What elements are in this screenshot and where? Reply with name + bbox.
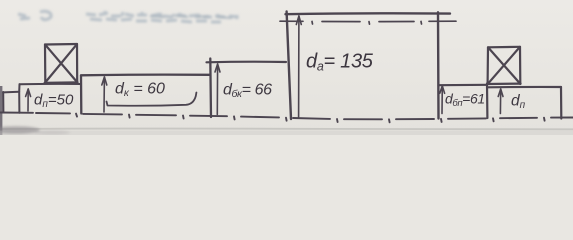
svg-text:dбк= 66: dбк= 66 [223, 82, 272, 101]
svg-text:dк = 60: dк = 60 [115, 81, 165, 100]
svg-text:da= 135: da= 135 [306, 51, 374, 74]
svg-text:dп=50: dп=50 [34, 92, 74, 111]
svg-text:dбп=61: dбп=61 [445, 91, 485, 110]
